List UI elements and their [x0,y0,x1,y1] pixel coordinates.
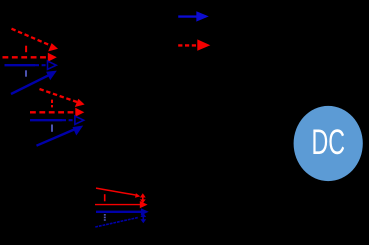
group 1: red dashed diagonal arrow [12,29,59,52]
group 1: blue solid diagonal arrow [11,71,57,94]
legend blue solid arrow [178,11,209,21]
group 2: blue vertical dash connector [51,125,53,132]
group 3: red vertical double-headed arrow [140,193,146,203]
group 3: blue vertical double-headed arrow [140,213,146,224]
group 1: red vertical dash connector [25,46,27,53]
group 1: blue horizontal arrow (solid then dashed, open head) [5,61,57,69]
group 3: blue horizontal thick arrow [96,208,149,215]
group 3: red vertical connector [104,194,106,201]
group 2: blue horizontal arrow (solid then dashed, open head) [30,116,84,124]
svg-text:DC: DC [312,122,346,162]
group 2: red vertical dash connector [51,100,53,108]
group 3: blue vertical dotted connector [104,214,106,222]
group 1: blue vertical dash connector [25,70,27,76]
group 2: blue solid diagonal arrow [37,126,84,146]
group 3: red solid diagonal line with small head [96,188,140,198]
group 2: red dashed horizontal arrow [30,108,84,117]
legend red dashed arrow [178,39,210,50]
group 1: red dashed horizontal arrow [3,53,57,62]
group 3: blue dashed diagonal line [95,217,138,227]
DC machine circle [294,106,363,181]
group 3: red horizontal arrow [95,201,148,208]
group 2: red dashed diagonal arrow [40,89,85,107]
